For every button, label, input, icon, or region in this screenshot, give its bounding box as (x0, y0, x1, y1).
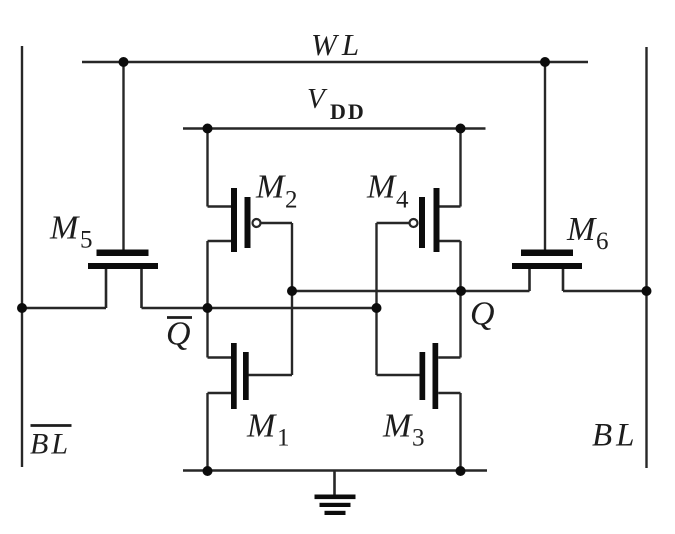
wire M4 drain to node Q (459, 241, 461, 291)
svg-text:M: M (255, 169, 286, 206)
svg-text:3: 3 (412, 425, 425, 452)
svg-text:BL: BL (30, 428, 71, 461)
wire M6 gate drop from WL (544, 62, 546, 250)
svg-text:4: 4 (396, 187, 409, 214)
svg-text:V: V (307, 83, 328, 115)
node Qbar wire / right gate column junction (372, 303, 382, 313)
label M2 (255, 169, 298, 214)
label M6 (566, 211, 609, 255)
wire Qbar horizontal from BLbar to M5 source (22, 307, 106, 309)
transistor M5 (NMOS access transistor, left) (88, 250, 158, 309)
svg-text:M: M (566, 211, 597, 248)
transistor M6 (NMOS access transistor, right) (512, 250, 582, 292)
wire right cross-coupling gate column (gate of M3,M4 to node Qbar) (375, 223, 377, 375)
node WL / M5 gate junction (119, 57, 129, 67)
node BL / Q wire junction (642, 286, 652, 296)
wire VDD rail (183, 127, 486, 129)
svg-text:M: M (49, 210, 80, 247)
node BLbar / Qbar wire junction (17, 303, 27, 313)
wire Q horizontal from M6 drain to BL (563, 290, 647, 292)
ground symbol (315, 471, 356, 516)
node VDD / M2 junction (203, 124, 213, 134)
wire M2 source to VDD (206, 129, 208, 207)
svg-text:5: 5 (80, 227, 93, 254)
svg-text:Q: Q (470, 296, 495, 333)
node ground rail right junction (456, 466, 466, 476)
wire M4 source to VDD (459, 129, 461, 207)
svg-text:6: 6 (596, 228, 609, 255)
node ground rail left junction (203, 466, 213, 476)
label VDD (307, 83, 366, 124)
label node Qbar (166, 316, 192, 353)
wire node Q to M3 drain (459, 291, 461, 358)
wire M1 source to ground rail (206, 393, 208, 471)
label M1 (246, 408, 290, 452)
transistor M1 (NMOS pull-down, left inverter) (208, 343, 293, 409)
wire M5 gate drop from WL (122, 62, 124, 250)
node Q wire / left gate column junction (287, 286, 297, 296)
wire BL bit-line rail (645, 47, 647, 468)
node Qbar (203, 303, 213, 313)
label M5 (49, 210, 93, 254)
wire node Qbar to M1 drain (206, 308, 208, 358)
wire Q horizontal from left gate column to M6 source (292, 290, 530, 292)
svg-text:BL: BL (592, 418, 639, 454)
svg-text:2: 2 (285, 187, 298, 214)
label M4 (366, 169, 409, 214)
node Q (456, 286, 466, 296)
wire Qbar horizontal from M5 drain to right gate column (142, 307, 377, 309)
transistor M3 (NMOS pull-down, right inverter) (377, 343, 461, 409)
wire ground rail (183, 469, 487, 471)
wire WL word line (82, 61, 588, 63)
node WL / M6 gate junction (540, 57, 550, 67)
wire BLbar bit-line rail (21, 46, 23, 467)
label BLbar (30, 426, 72, 461)
svg-text:Q: Q (166, 316, 191, 353)
wire M3 source to ground rail (459, 393, 461, 471)
svg-text:M: M (382, 408, 413, 445)
transistor M2 (PMOS pull-up, left inverter) (208, 188, 293, 252)
wire M2 drain to node Qbar (206, 241, 208, 308)
transistor M4 (PMOS pull-up, right inverter) (377, 188, 461, 252)
svg-text:M: M (246, 408, 277, 445)
svg-text:1: 1 (277, 425, 290, 452)
node VDD / M4 junction (456, 124, 466, 134)
wire left cross-coupling gate column (gate of M1,M2 to node Q) (291, 223, 293, 375)
svg-text:DD: DD (330, 99, 366, 124)
svg-text:WL: WL (311, 27, 364, 62)
svg-text:M: M (366, 169, 397, 206)
label M3 (382, 408, 425, 452)
